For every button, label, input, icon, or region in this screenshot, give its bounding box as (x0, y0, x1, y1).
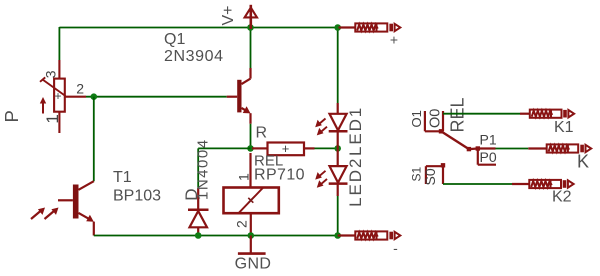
svg-text:+: + (54, 89, 61, 103)
svg-text:K2: K2 (552, 189, 572, 206)
svg-text:Q1: Q1 (164, 31, 185, 48)
svg-text:BP103: BP103 (113, 188, 161, 205)
node LED bottom junction (334, 232, 341, 239)
ground (238, 236, 266, 254)
connector K (528, 144, 591, 152)
svg-text:O0: O0 (428, 109, 444, 128)
svg-text:V+: V+ (220, 5, 237, 25)
wire pot top vertical (58, 27, 60, 60)
wire diode vertical (197, 148, 199, 188)
svg-text:K: K (577, 152, 589, 172)
supply V+ (245, 5, 257, 29)
LED1 (315, 103, 347, 148)
wire LED column bottom (337, 196, 339, 236)
wire R to LED junction (315, 147, 338, 149)
svg-text:R: R (256, 125, 268, 142)
svg-text:1: 1 (235, 173, 251, 181)
connector minus (bottom right) (338, 231, 401, 239)
connector plus (top right) (339, 23, 401, 31)
svg-text:3: 3 (42, 70, 58, 78)
node diode-ground junction (195, 232, 202, 239)
wire emitter row left (198, 147, 250, 149)
potentiometer P (40, 60, 86, 133)
svg-text:T1: T1 (113, 169, 132, 186)
transistor T1 (31, 181, 94, 235)
node emitter junction (247, 145, 254, 152)
svg-text:1N4004: 1N4004 (195, 138, 212, 200)
svg-text:1: 1 (43, 114, 62, 123)
svg-text:GND: GND (235, 255, 272, 272)
transistor Q1 (227, 68, 251, 124)
connector K1 (520, 110, 574, 118)
relay coil REL (224, 153, 279, 236)
node base junction (91, 93, 98, 100)
node LED top junction (334, 24, 341, 31)
wire base row (86, 96, 227, 98)
svg-text:LED2: LED2 (346, 157, 365, 207)
wire S row (443, 183, 512, 185)
relay contact REL (425, 111, 496, 184)
svg-text:LED1: LED1 (346, 106, 365, 156)
svg-text:P1: P1 (480, 132, 497, 148)
wire O row (443, 113, 520, 115)
wire collector to rail (250, 28, 252, 69)
node LED mid junction (334, 145, 341, 152)
wire P row (496, 148, 529, 150)
node V+ junction (247, 24, 254, 31)
diode D (188, 188, 209, 236)
svg-text:2: 2 (76, 81, 84, 97)
wire LED column top (337, 28, 339, 104)
svg-text:RP710: RP710 (254, 167, 305, 184)
svg-text:2: 2 (234, 220, 250, 228)
svg-text:2N3904: 2N3904 (164, 48, 224, 65)
svg-text:S0: S0 (422, 168, 438, 185)
wire emitter down (250, 124, 252, 149)
svg-text:+: + (390, 32, 398, 48)
wire T1 collector vertical (93, 97, 95, 182)
connector K2 (512, 180, 574, 188)
svg-text:P0: P0 (480, 149, 497, 165)
resistor R (252, 143, 315, 156)
svg-text:-: - (393, 240, 398, 256)
LED2 (315, 148, 347, 196)
wire bottom rail (94, 235, 338, 237)
node relay-ground junction (248, 232, 255, 239)
svg-text:O1: O1 (409, 110, 424, 127)
svg-text:P: P (1, 110, 22, 122)
svg-text:K1: K1 (554, 119, 574, 136)
wire top rail (59, 27, 338, 29)
svg-text:REL: REL (448, 97, 468, 132)
